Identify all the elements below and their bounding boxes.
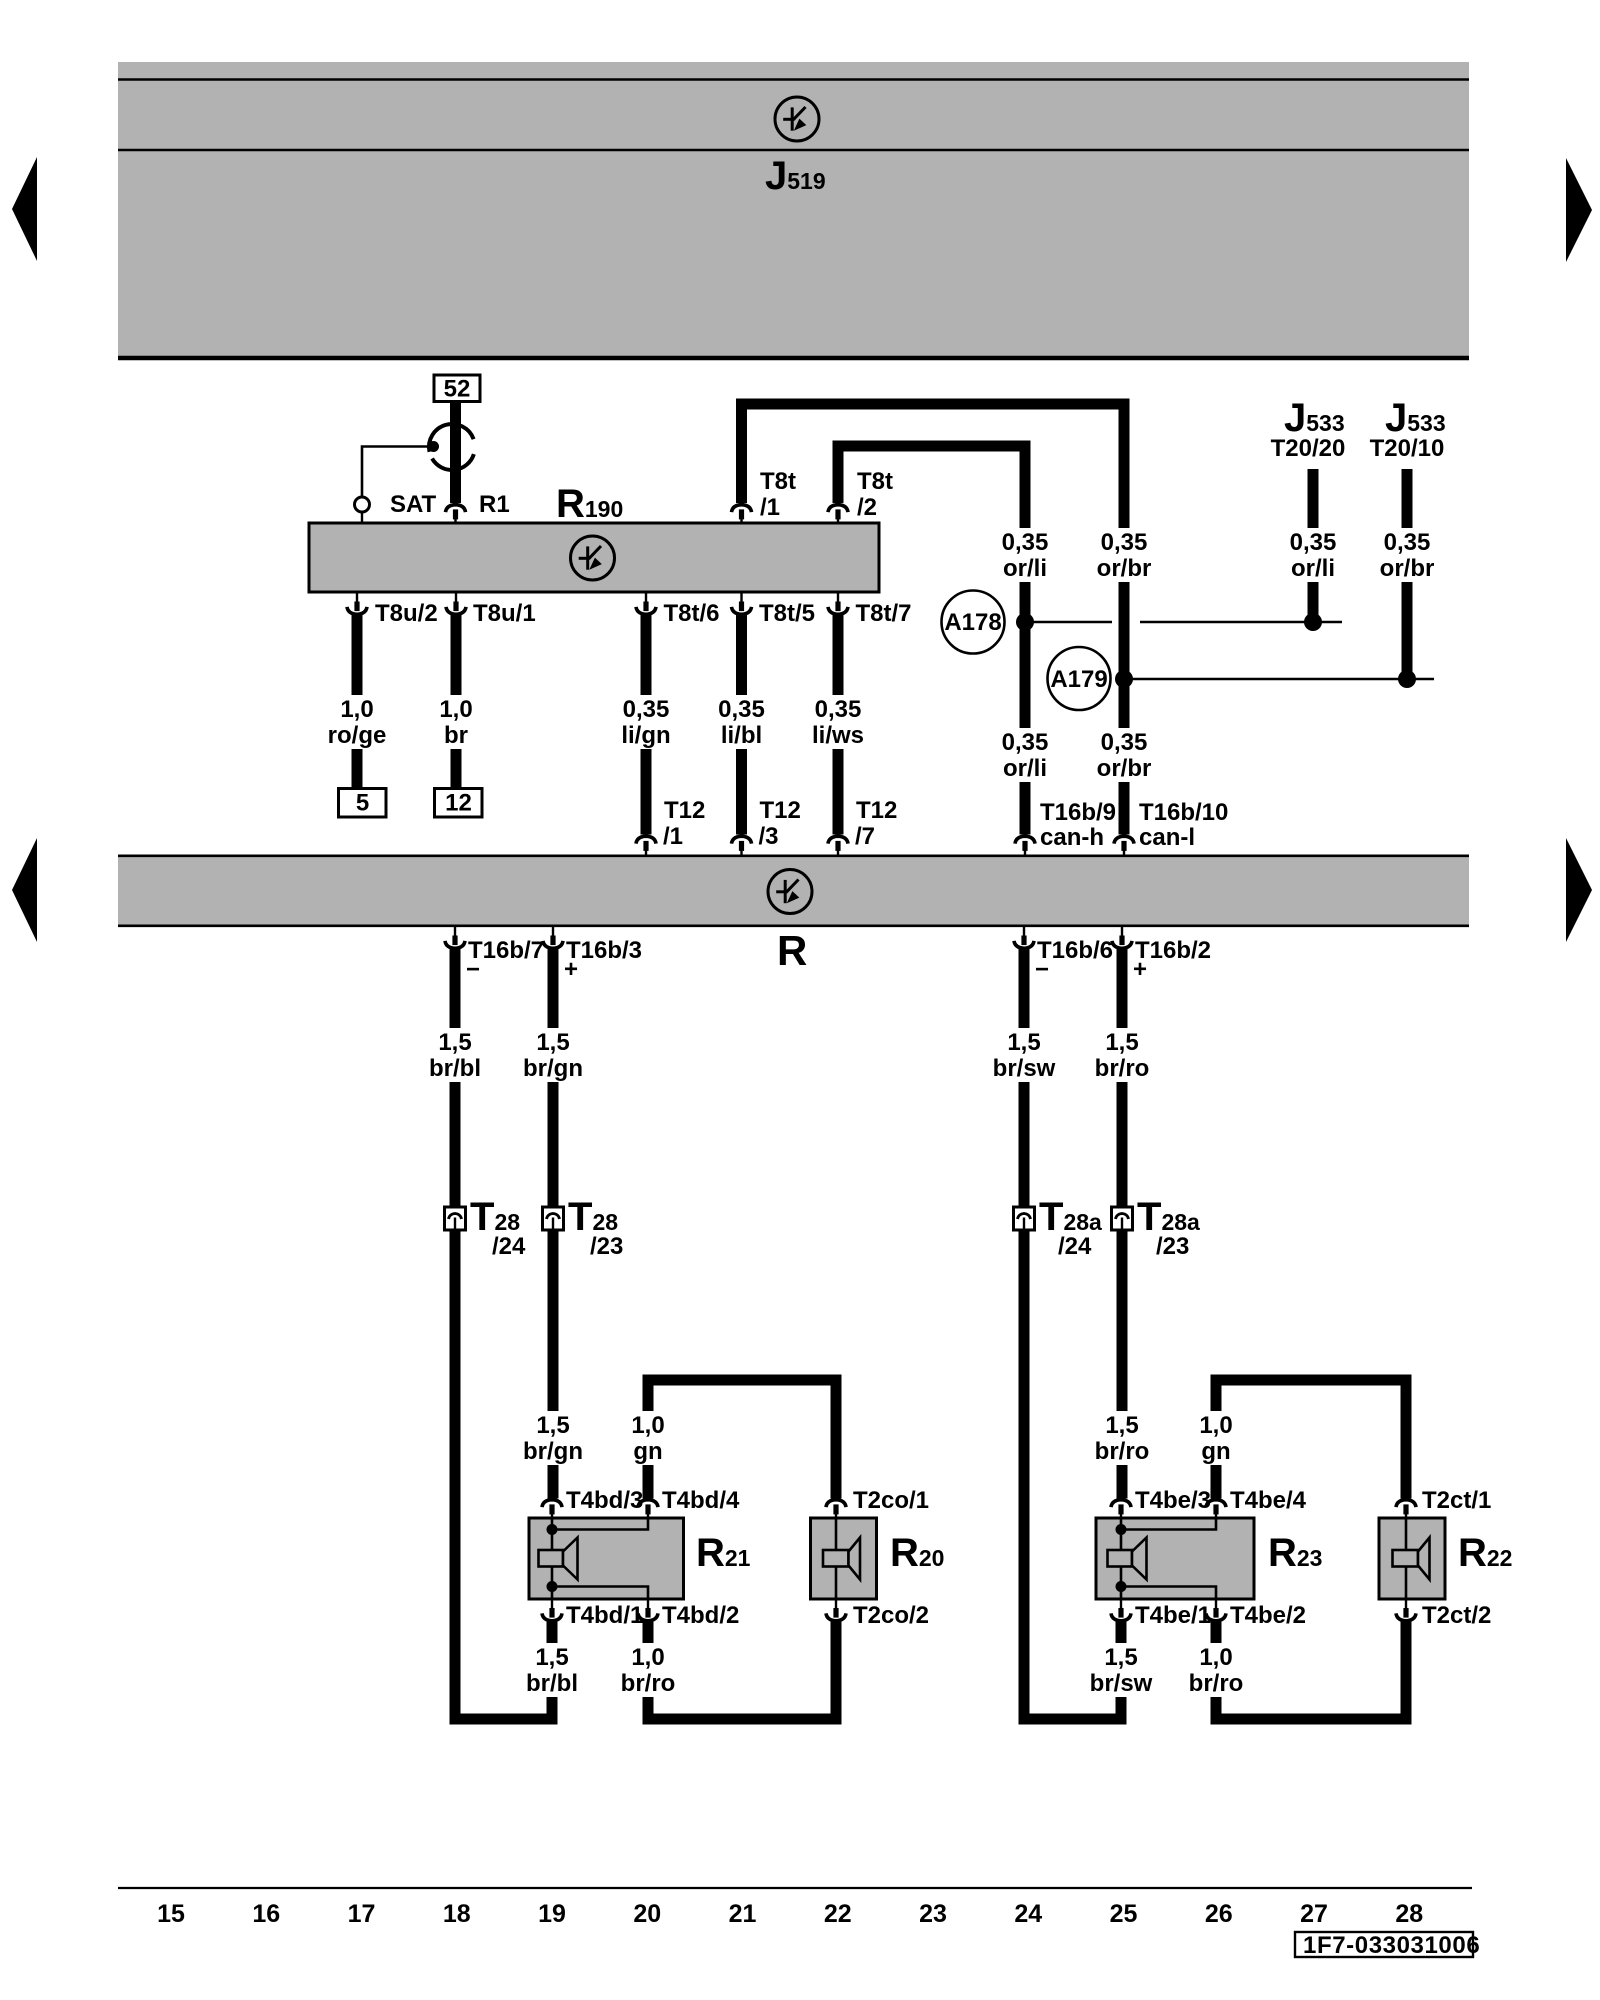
node A179 circle [1048,647,1111,710]
svg-text:T12: T12 [856,797,897,824]
svg-text:5: 5 [356,790,369,817]
R20 internal wire [835,1518,838,1599]
svg-text:0,35: 0,35 [1002,729,1049,756]
pin T8u/1 [455,593,457,603]
label 0,35 or/li J533 [1274,528,1352,582]
node A179 dot right [1398,670,1416,688]
continuation arrow middle left [12,838,37,942]
terminal 52 box [434,375,480,402]
svg-text:20: 20 [633,1900,661,1928]
wire gn loop right [1211,1386,1222,1499]
pin T16b/2 [1121,927,1123,937]
svg-text:T4be/4: T4be/4 [1230,1487,1307,1514]
pin T16b/3 [552,927,554,937]
svg-text:+: + [564,956,578,983]
svg-text:/24: /24 [1058,1233,1092,1260]
svg-text:br/ro: br/ro [1095,1055,1150,1082]
diagram number box [1295,1932,1473,1957]
svg-text:1,5: 1,5 [536,1412,569,1439]
wire br upper [451,613,462,789]
svg-text:br/sw: br/sw [993,1055,1056,1082]
svg-text:1,5: 1,5 [1105,1029,1138,1056]
label 0,35 or/br upper [1085,528,1163,582]
svg-text:22: 22 [824,1900,852,1928]
svg-text:18: 18 [443,1900,471,1928]
svg-text:R: R [777,927,807,974]
svg-text:T12: T12 [664,797,705,824]
svg-text:T2ct/1: T2ct/1 [1422,1487,1491,1514]
shield symbol circle [432,454,474,470]
svg-text:R1: R1 [479,491,510,518]
label 1,5 br/gn lower [514,1411,592,1465]
connector T28a/24 [1014,1207,1035,1230]
wire ro/ge upper [352,613,363,789]
svg-text:1F7-033031006: 1F7-033031006 [1303,1932,1480,1959]
ground box 12 [435,789,483,818]
svg-text:17: 17 [348,1900,376,1928]
pin T16b/10 [1114,836,1134,843]
wire J533 or/li [1308,469,1319,622]
svg-text:23: 23 [919,1900,947,1928]
svg-text:T8t: T8t [760,468,796,495]
R23 internal link top [1125,1519,1216,1530]
pin T12/3 [732,836,752,843]
wire br/bl long [450,947,461,1725]
svg-text:J533: J533 [1385,396,1446,440]
svg-text:0,35: 0,35 [718,696,765,723]
label 0,35 li/ws [799,695,877,749]
svg-text:T16b/10: T16b/10 [1139,799,1228,826]
svg-text:li/ws: li/ws [812,722,864,749]
svg-text:T4bd/4: T4bd/4 [662,1487,740,1514]
svg-text:li/bl: li/bl [721,722,762,749]
svg-text:A179: A179 [1050,666,1107,693]
bottom loop right outer [1019,1714,1127,1725]
label 1,0 gn left [623,1411,673,1465]
pin T8t/6 [645,593,647,603]
svg-text:/24: /24 [492,1233,526,1260]
continuation arrow middle right [1566,838,1592,942]
node A178 line [1025,621,1112,624]
label 0,35 or/li upper [986,528,1064,582]
connector T28/23 [543,1207,564,1230]
wire T8t/2 loop [833,446,844,503]
bottom loop right inner [1211,1714,1412,1725]
node A178 dot left [1016,613,1034,631]
R23 internal wire [1120,1518,1123,1599]
svg-text:T4be/2: T4be/2 [1230,1602,1306,1629]
radio R190 box [309,523,879,592]
svg-text:15: 15 [157,1900,185,1928]
svg-text:li/gn: li/gn [621,722,670,749]
svg-text:1,0: 1,0 [631,1412,664,1439]
label 1,5 br/bl [416,1028,494,1082]
svg-text:27: 27 [1300,1900,1328,1928]
R21 terminal dot top [547,1524,558,1535]
svg-text:T16b/9: T16b/9 [1040,799,1116,826]
svg-text:T4be/1: T4be/1 [1135,1602,1211,1629]
R21 speaker icon [539,1550,564,1567]
svg-text:or/li: or/li [1003,555,1047,582]
svg-text:/1: /1 [760,494,780,521]
svg-text:/23: /23 [590,1233,623,1260]
svg-text:T20/10: T20/10 [1370,435,1445,462]
pin T16b/6 [1023,927,1025,937]
radio R bar [118,855,1469,927]
svg-text:1,0: 1,0 [1199,1644,1232,1671]
R21 internal link top [556,1519,648,1530]
svg-text:br/gn: br/gn [523,1055,583,1082]
svg-text:28: 28 [1395,1900,1423,1928]
svg-text:br/ro: br/ro [621,1670,676,1697]
svg-text:or/br: or/br [1097,755,1152,782]
pin T16b/7 [454,927,456,937]
svg-text:br/sw: br/sw [1090,1670,1153,1697]
wire T2co/2 down [831,1619,842,1725]
svg-text:0,35: 0,35 [623,696,670,723]
speaker R23 box [1096,1518,1254,1599]
svg-text:br/bl: br/bl [429,1055,481,1082]
pin T4bd/4 [638,1500,658,1507]
pin T8u/2 [356,593,358,603]
pin T2ct/2 [1405,1599,1407,1609]
svg-text:1,5: 1,5 [1105,1412,1138,1439]
svg-text:0,35: 0,35 [1384,529,1431,556]
node A178 circle [942,591,1005,654]
R23 internal link bottom [1125,1587,1216,1599]
svg-text:T2co/1: T2co/1 [853,1487,929,1514]
svg-text:16: 16 [252,1900,280,1928]
label 0,35 li/bl [703,695,781,749]
pin T4bd/3 [542,1500,562,1507]
pin T8t/5 [740,593,742,603]
wire li/gn [641,613,652,835]
svg-text:/7: /7 [855,823,875,850]
svg-text:0,35: 0,35 [815,696,862,723]
connector T28a/23 [1112,1207,1133,1230]
svg-text:can-h: can-h [1040,824,1104,851]
wire gn loop left [643,1386,654,1499]
pin T2ct/1 [1396,1500,1416,1507]
wire li/bl [736,613,747,835]
svg-text:1,5: 1,5 [536,1029,569,1056]
svg-text:T4bd/1: T4bd/1 [566,1602,643,1629]
control unit J519 bar [118,62,1469,358]
pin T16b/9 [1015,836,1035,843]
svg-text:br/bl: br/bl [526,1670,578,1697]
svg-text:19: 19 [538,1900,566,1928]
node A178 dot right [1304,613,1322,631]
svg-text:T4bd/3: T4bd/3 [566,1487,643,1514]
svg-text:J533: J533 [1284,396,1345,440]
svg-text:T8t: T8t [857,468,893,495]
svg-text:/1: /1 [663,823,683,850]
label 1,0 br [431,695,481,749]
control unit symbol on J519 [775,97,819,141]
pin R1 [446,505,466,512]
speaker R21 box [529,1518,684,1599]
svg-text:T8u/2: T8u/2 [375,600,438,627]
R23 speaker icon [1108,1550,1133,1567]
wire br/sw long [1019,947,1030,1725]
bottom loop left outer [450,1714,558,1725]
SAT ring terminal [355,497,370,512]
control unit symbol on R190 [571,536,615,580]
pin T4be/2 [1215,1599,1217,1609]
svg-text:br: br [444,722,468,749]
pin T12/7 [828,836,848,843]
svg-text:0,35: 0,35 [1290,529,1337,556]
svg-text:0,35: 0,35 [1101,529,1148,556]
wire can-l vertical [1119,399,1130,835]
pin T8t/7 [837,593,839,603]
svg-text:ro/ge: ro/ge [328,722,387,749]
svg-text:−: − [466,956,480,983]
svg-text:T8t/6: T8t/6 [664,600,720,627]
continuation arrow top right [1566,158,1592,262]
svg-text:R20: R20 [890,1531,944,1575]
label 1,0 br/ro right [1177,1643,1255,1697]
wire can-h vertical [1020,441,1031,835]
label 0,35 or/br J533 [1368,528,1446,582]
label 1,5 br/ro upper [1083,1028,1161,1082]
continuation arrow top left [12,157,37,261]
svg-text:26: 26 [1205,1900,1233,1928]
wire J533 or/br [1402,469,1413,679]
svg-text:/2: /2 [857,494,877,521]
svg-text:1,5: 1,5 [1007,1029,1040,1056]
svg-text:0,35: 0,35 [1002,529,1049,556]
svg-text:0,35: 0,35 [1101,729,1148,756]
speaker R22 box [1379,1518,1445,1599]
label 0,35 or/br lower [1085,728,1163,782]
svg-text:or/li: or/li [1003,755,1047,782]
speaker R20 box [811,1518,877,1599]
R21 terminal dot bottom [547,1581,558,1592]
svg-text:or/br: or/br [1097,555,1152,582]
svg-text:1,5: 1,5 [438,1029,471,1056]
pin T4bd/1 [551,1599,553,1609]
label 1,5 br/bl lower [513,1643,591,1697]
current track rule [118,1887,1472,1889]
svg-text:T4be/3: T4be/3 [1135,1487,1211,1514]
shield tap dot [428,441,439,452]
bottom loop left inner [643,1714,842,1725]
label 1,5 br/ro lower [1083,1411,1161,1465]
connector T28/24 [445,1207,466,1230]
svg-text:+: + [1133,956,1147,983]
pin T2co/1 [826,1500,846,1507]
svg-text:21: 21 [729,1900,757,1928]
ground box 5 [339,789,387,818]
R22 speaker icon [1393,1550,1419,1567]
svg-text:1,5: 1,5 [535,1644,568,1671]
svg-text:/23: /23 [1156,1233,1189,1260]
svg-text:R23: R23 [1268,1531,1322,1575]
svg-text:52: 52 [444,376,471,403]
svg-text:gn: gn [633,1438,662,1465]
svg-text:12: 12 [445,790,472,817]
svg-text:25: 25 [1110,1900,1138,1928]
R22 internal wire [1405,1518,1408,1599]
svg-text:T12: T12 [760,797,801,824]
svg-text:1,0: 1,0 [439,696,472,723]
wire shield to SAT [362,447,434,497]
pin T4bd/2 [647,1599,649,1609]
svg-text:T2ct/2: T2ct/2 [1422,1602,1491,1629]
svg-text:or/li: or/li [1291,555,1335,582]
label 0,35 or/li lower [986,728,1064,782]
svg-text:24: 24 [1014,1900,1042,1928]
svg-text:A178: A178 [944,609,1001,636]
svg-text:R21: R21 [696,1531,751,1575]
svg-text:R190: R190 [556,482,623,526]
R20 speaker icon [823,1550,849,1567]
wire br/ro long [1117,947,1128,1499]
pin T4be/4 [1206,1500,1226,1507]
label 1,5 br/sw lower [1082,1643,1160,1697]
svg-text:T2co/2: T2co/2 [853,1602,929,1629]
svg-text:1,0: 1,0 [340,696,373,723]
svg-text:T20/20: T20/20 [1271,435,1346,462]
wire 52 to R1 [450,402,461,504]
label 1,0 gn right [1191,1411,1241,1465]
wire T8t/1 loop [736,404,747,503]
svg-text:−: − [1035,956,1049,983]
wire br/gn long [548,947,559,1499]
wire T2ct/2 down [1401,1619,1412,1725]
svg-text:T4bd/2: T4bd/2 [662,1602,739,1629]
svg-text:T8u/1: T8u/1 [473,600,536,627]
pin T8t/2 [828,505,848,512]
R21 internal wire [551,1518,554,1599]
svg-text:br/ro: br/ro [1189,1670,1244,1697]
svg-text:1,5: 1,5 [1104,1644,1137,1671]
svg-text:T8t/5: T8t/5 [759,600,815,627]
pin T4be/1 [1120,1599,1122,1609]
node A179 line [1124,678,1434,681]
svg-text:or/br: or/br [1380,555,1435,582]
svg-text:1,0: 1,0 [1199,1412,1232,1439]
label 1,0 ro/ge [318,695,396,749]
label 1,5 br/gn upper [514,1028,592,1082]
svg-text:1,0: 1,0 [631,1644,664,1671]
pin T4be/3 [1111,1500,1131,1507]
R23 terminal dot bottom [1116,1581,1127,1592]
node A179 dot left [1115,670,1133,688]
control unit symbol on R bar [768,870,812,914]
pin T12/1 [636,836,656,843]
svg-text:gn: gn [1201,1438,1230,1465]
pin T2co/2 [835,1599,837,1609]
svg-text:br/gn: br/gn [523,1438,583,1465]
R23 terminal dot top [1116,1524,1127,1535]
label 1,5 br/sw [985,1028,1063,1082]
svg-text:T8t/7: T8t/7 [856,600,912,627]
label 0,35 li/gn [607,695,685,749]
svg-text:can-l: can-l [1139,824,1195,851]
svg-text:/3: /3 [759,823,779,850]
svg-text:br/ro: br/ro [1095,1438,1150,1465]
label 1,0 br/ro left [609,1643,687,1697]
svg-text:R22: R22 [1458,1531,1512,1575]
pin T8t/1 [732,505,752,512]
R21 internal link bottom [556,1587,648,1599]
svg-text:SAT: SAT [390,491,437,518]
wire li/ws [833,613,844,835]
